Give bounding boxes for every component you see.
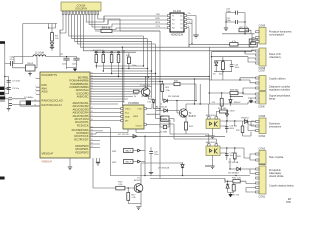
svg-text:R29 360: R29 360 (230, 89, 239, 91)
resistor R31b vertical (212, 92, 224, 110)
svg-text:A/D0: A/D0 (42, 90, 48, 94)
resistor network pull-ups RP1 (93, 50, 136, 77)
diode D6 (228, 161, 256, 175)
ground pins under U1 right (96, 158, 100, 165)
svg-text:19: 19 (91, 139, 93, 141)
svg-text:GOLDPIN: GOLDPIN (75, 6, 87, 10)
wire CON9 feed (222, 30, 255, 41)
svg-text:100n: 100n (62, 63, 66, 65)
svg-text:VRSIO+P: VRSIO+P (42, 161, 53, 164)
ground under OK2 (205, 166, 215, 169)
ground near CON6 (248, 98, 256, 103)
svg-text:TXD: TXD (156, 14, 161, 16)
wire left feed (60, 30, 66, 33)
resistor R17 emitter-gnd (127, 187, 141, 203)
svg-text:17: 17 (91, 115, 93, 117)
ground under D1 (50, 47, 54, 50)
svg-text:15: 15 (91, 107, 93, 109)
net label box PUMP A (112, 149, 145, 153)
svg-text:4: 4 (35, 90, 36, 92)
wire bottom bus (110, 128, 250, 183)
net label box PUMP B (112, 151, 145, 176)
svg-text:L1 10uH: L1 10uH (35, 51, 44, 54)
resistor R3 (51, 33, 60, 43)
svg-text:CON5: CON5 (259, 115, 266, 118)
connector CON2 tall (256, 163, 295, 198)
connector CON6 (256, 92, 291, 109)
svg-text:100u: 100u (235, 67, 239, 69)
svg-text:1N4007: 1N4007 (234, 102, 242, 104)
wire mid horizontals (96, 78, 201, 134)
svg-text:R27 4,7k: R27 4,7k (239, 27, 249, 29)
crystal X2 32kHz (160, 122, 169, 133)
svg-text:14: 14 (34, 100, 36, 102)
svg-text:21: 21 (91, 146, 93, 148)
svg-text:V-: V- (188, 25, 190, 27)
capacitor C18 (225, 125, 237, 133)
svg-text:Stan czujnika: Stan czujnika (269, 156, 284, 159)
wire bottom right corner text (286, 198, 292, 204)
diode D3 (156, 100, 180, 112)
svg-text:R31 1,2k: R31 1,2k (232, 178, 242, 180)
wire vertical collectors (96, 31, 161, 176)
ground under OK1 (205, 136, 215, 139)
wire CON5 feeds (248, 122, 256, 131)
wire CON2 feeds (229, 153, 255, 192)
resistor R28 (249, 39, 257, 47)
svg-text:obwód silnika: obwód silnika (269, 175, 284, 178)
svg-text:5: 5 (35, 93, 36, 95)
capacitor C5 decoupling (62, 57, 70, 70)
svg-text:BC547: BC547 (189, 115, 197, 118)
wire C21/C22 net (225, 13, 245, 34)
resistor R11 vertical (161, 81, 171, 101)
capacitor C1 (5, 56, 23, 66)
zener diode D10 (213, 61, 218, 76)
optocoupler OK2 (206, 142, 220, 156)
capacitor C6 decoupling (67, 57, 80, 68)
resistor R30 vertical (219, 61, 224, 76)
resistor R36 vertical (228, 183, 240, 197)
svg-text:CON2: CON2 (259, 163, 266, 166)
ground mid bottom (149, 158, 153, 175)
wire U3 right (96, 102, 168, 133)
wire U1 right pin mesh (90, 66, 210, 148)
wire opto inputs (160, 104, 216, 144)
svg-text:24: 24 (91, 130, 93, 132)
svg-text:R4 4,7k: R4 4,7k (102, 26, 111, 29)
svg-text:CON3: CON3 (259, 148, 266, 151)
IC U5 78L05 (12, 57, 37, 77)
resistor R29 (230, 89, 239, 94)
wire U2 right side (187, 16, 196, 48)
svg-text:RC3/SCK: RC3/SCK (77, 123, 89, 127)
svg-text:TO 5W 4A: TO 5W 4A (228, 161, 239, 164)
diode D1 (50, 43, 53, 46)
connector CON8 (256, 48, 282, 70)
svg-text:C3 10u: C3 10u (12, 88, 20, 90)
svg-text:CON6: CON6 (258, 105, 265, 108)
ground under U1 (68, 158, 72, 170)
svg-text:1: 1 (35, 77, 36, 79)
transistor T2 BC547 (177, 104, 197, 122)
inductor L1 (14, 51, 77, 63)
svg-text:CON4: CON4 (259, 135, 266, 138)
svg-text:Czujnik otwarcia bramy: Czujnik otwarcia bramy (269, 184, 295, 187)
wire left vertical feed (4, 43, 9, 97)
connector power input (0, 41, 9, 95)
wire power rails mid (90, 76, 210, 79)
svg-text:RTS: RTS (156, 22, 161, 24)
svg-text:100n: 100n (226, 20, 232, 22)
svg-text:100u: 100u (154, 154, 158, 156)
wire U1 left pin stubs (20, 79, 40, 106)
svg-text:CTS: CTS (156, 26, 161, 28)
svg-text:100n: 100n (72, 63, 76, 65)
resistor R21 above OK1 (216, 108, 228, 122)
transistor T3 BC547 (130, 163, 183, 207)
svg-text:INB_P: INB_P (125, 162, 131, 164)
capacitor C24 (230, 61, 239, 72)
svg-text:OSCI: OSCI (125, 109, 131, 111)
wire LCD bus vertical drops (60, 15, 255, 54)
capacitor C2 (7, 80, 21, 82)
svg-text:ICL232: ICL232 (173, 10, 182, 13)
svg-text:CON9: CON9 (259, 25, 266, 28)
svg-text:AC 230V: AC 230V (226, 109, 235, 112)
svg-text:OSCO: OSCO (136, 125, 143, 127)
wire CON7 feeds (209, 78, 255, 83)
wire DC12V line (118, 134, 225, 151)
IC U1 PIC16F877 (34, 72, 93, 164)
svg-text:RA6/OSC2/CLKO: RA6/OSC2/CLKO (42, 99, 63, 103)
wire CON8 feeds (212, 50, 256, 62)
ground under C5 C6 (73, 68, 77, 72)
diode D4 (141, 96, 161, 110)
svg-text:RA7/OSC1/CLKI: RA7/OSC1/CLKI (42, 103, 62, 107)
svg-text:78L05: 78L05 (27, 63, 34, 65)
svg-text:18: 18 (91, 119, 93, 121)
svg-text:INA_P: INA_P (125, 150, 131, 153)
chassis mark (0, 96, 5, 101)
wire OK1 output net (213, 120, 249, 136)
connector J1 LCD header (61, 2, 101, 15)
wire CON6 feeds (209, 88, 256, 104)
connector CON5 (256, 115, 282, 138)
wire ISP frame (23, 24, 57, 64)
resistor R22 vertical (236, 121, 255, 136)
svg-text:1k: 1k (134, 96, 136, 98)
svg-text:AN0/OSC: AN0/OSC (77, 95, 89, 99)
svg-text:RD2/PSP2: RD2/PSP2 (76, 150, 90, 154)
IC U2 MAX232 (167, 10, 192, 37)
net box NTC (156, 111, 175, 123)
svg-text:T1 BC557: T1 BC557 (140, 85, 151, 87)
svg-text:MOC3041: MOC3041 (206, 142, 217, 144)
svg-text:CON1: CON1 (259, 195, 266, 198)
resistor R27b (230, 41, 238, 46)
svg-text:VRSIO+P: VRSIO+P (42, 151, 54, 155)
svg-text:R14-R17 10k: R14-R17 10k (93, 50, 105, 52)
svg-text:AT 1N4148: AT 1N4148 (156, 106, 168, 109)
wire vertical pair mid-right (209, 47, 213, 104)
svg-text:20: 20 (91, 143, 93, 145)
svg-text:BC547: BC547 (134, 180, 141, 182)
connector CON7 (256, 69, 291, 91)
resistor R27 (239, 27, 249, 32)
svg-text:SDA: SDA (125, 116, 130, 119)
svg-text:10n: 10n (230, 155, 233, 157)
capacitor C3 (7, 88, 20, 90)
svg-text:1N4007: 1N4007 (241, 117, 249, 119)
wire OK2 output net (213, 147, 245, 166)
svg-text:RC7/RX/DT: RC7/RX/DT (74, 137, 89, 141)
wire serial rails to CON9 (104, 16, 255, 47)
svg-text:MOC3041: MOC3041 (206, 115, 217, 117)
svg-text:CON7: CON7 (259, 69, 266, 72)
svg-text:OC 3N048: OC 3N048 (141, 96, 151, 98)
crystal X1 with caps (5, 97, 40, 111)
svg-text:D6 1N4007: D6 1N4007 (228, 173, 240, 175)
capacitor C20 (149, 147, 158, 158)
wire cluster rails (214, 57, 232, 80)
ground near U2 (193, 35, 199, 38)
ground bottom right (228, 193, 232, 198)
capacitor C21 (226, 18, 245, 24)
ground under C22 (224, 28, 228, 31)
connector CON9 (256, 25, 292, 44)
svg-text:PCF8583: PCF8583 (128, 102, 139, 105)
resistor R6 vertical (126, 53, 136, 69)
svg-text:32,768k: 32,768k (160, 131, 167, 133)
diode D2 (164, 96, 196, 102)
svg-text:lampy: lampy (269, 97, 276, 100)
wire I2C verticals (122, 47, 130, 107)
optocoupler OK1 (206, 115, 220, 129)
svg-text:Czujnik odbioru: Czujnik odbioru (269, 77, 286, 80)
capacitor C22 (226, 8, 245, 14)
svg-text:C2 100n: C2 100n (12, 81, 21, 83)
resistor R8 base T1 (132, 90, 141, 98)
IC U3 PCF8583 RTC (121, 102, 147, 129)
svg-text:13: 13 (34, 105, 36, 107)
svg-text:16: 16 (91, 111, 93, 113)
svg-text:zewnętrzne: zewnętrzne (269, 125, 282, 128)
svg-text:ZR 1N4148: ZR 1N4148 (168, 96, 180, 98)
svg-text:DC 12V IN: DC 12V IN (118, 134, 129, 136)
svg-text:26: 26 (91, 135, 93, 137)
diode D5 (241, 117, 249, 123)
diode D11 vertical (229, 95, 243, 106)
svg-text:23: 23 (91, 126, 93, 128)
resistor R31 (225, 178, 246, 183)
resistor R4 4k7 (95, 26, 120, 32)
svg-text:8583: 8583 (133, 116, 139, 118)
resistor R23 vertical (234, 153, 242, 159)
svg-text:PIC16F877S: PIC16F877S (42, 73, 58, 77)
resistor R16 base (93, 158, 130, 190)
svg-text:X1 4MHz: X1 4MHz (24, 97, 33, 99)
svg-text:i klawiatury: i klawiatury (269, 56, 282, 59)
zener diode D9 (226, 181, 229, 193)
text AC 230V note (226, 109, 235, 112)
svg-text:3/05: 3/05 (286, 201, 291, 204)
svg-text:100n: 100n (226, 11, 232, 13)
diode D7 vertical (158, 162, 184, 176)
connector CON4 (256, 148, 284, 165)
ground under T3 (136, 207, 140, 210)
svg-text:na kompatybil.: na kompatybil. (269, 33, 285, 36)
svg-text:400V: 400V (230, 128, 235, 130)
svg-text:2: 2 (35, 86, 36, 88)
svg-text:VDD: VDD (137, 109, 142, 111)
svg-text:RXD: RXD (155, 18, 160, 20)
svg-text:D7 1N4148: D7 1N4148 (158, 168, 170, 170)
resistor R10 (168, 80, 196, 100)
svg-text:ADM202JN: ADM202JN (171, 33, 183, 36)
svg-text:C1A: C1A (9, 56, 14, 59)
resistor R12 under T2 (185, 122, 194, 134)
svg-text:regulatora schodów: regulatora schodów (269, 88, 290, 91)
capacitor C19 (225, 152, 234, 160)
transistor T1 BC557 (140, 76, 154, 99)
connector edge mark bottom left (0, 177, 5, 180)
wire RS232 labels (155, 14, 160, 28)
